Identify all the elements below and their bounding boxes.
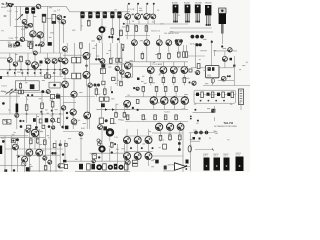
junction bl a: [59, 143, 62, 146]
svg-text:T1: T1: [48, 138, 50, 140]
value label: [212, 93, 214, 96]
wire lead: [116, 144, 118, 164]
wire link: [63, 78, 80, 80]
component bl d: [62, 153, 64, 155]
transistor Q35: [115, 66, 119, 70]
transistor Q63: [161, 97, 168, 104]
wire lead: [41, 114, 43, 125]
wire lead: [101, 43, 103, 59]
diode D3: [7, 72, 9, 74]
capacitor C8: [103, 11, 107, 18]
value label: [215, 132, 218, 135]
wire left bl y149: [5, 148, 63, 150]
capacitor C3 vertical: [42, 14, 46, 22]
wire amp out: [186, 166, 190, 168]
resistor R44: [164, 86, 167, 91]
value label: [155, 53, 157, 56]
diode D9b: [54, 72, 56, 74]
value label: [204, 49, 207, 52]
svg-text:OUT-4: OUT-4: [236, 155, 241, 157]
resistor R38: [115, 112, 118, 118]
component pkg5 end: [221, 45, 223, 47]
wire vbus x81: [80, 18, 82, 31]
wire top rail left: [14, 5, 66, 7]
resistor R45: [175, 86, 178, 91]
wire lead: [73, 97, 75, 109]
relay dot: [53, 84, 56, 87]
resistor R16: [158, 52, 161, 61]
resistor R54: [222, 92, 225, 98]
component box s1: [9, 44, 12, 47]
transistor Q11: [61, 20, 65, 24]
value label: [42, 149, 44, 152]
wire lead: [95, 95, 97, 97]
wire link: [30, 170, 63, 172]
wire link: [125, 66, 152, 68]
diode D7: [34, 72, 36, 74]
transistor Q3: [25, 25, 29, 29]
wire lead: [64, 74, 66, 81]
svg-text:2SB337: 2SB337: [223, 154, 229, 156]
wire lead: [64, 140, 66, 160]
resistor R48: [142, 114, 145, 120]
terminal tip d: [153, 3, 155, 5]
wire vbus x63 left: [62, 24, 64, 43]
wire rail under packages: [170, 27, 212, 29]
value label: [16, 10, 18, 13]
wire link: [46, 18, 53, 20]
terminal tip a: [128, 3, 130, 5]
potentiometer P1: [194, 131, 198, 135]
value label: [178, 14, 180, 17]
junction rail114 1: [26, 113, 28, 115]
value label: [239, 68, 241, 71]
junction rail dot 7: [54, 69, 56, 71]
wire lead: [26, 97, 28, 103]
value label: [46, 156, 48, 159]
transistor Q58: [71, 119, 77, 125]
resistor R62: [92, 154, 96, 159]
wire lead: [32, 14, 34, 31]
value label: [58, 22, 61, 25]
resistor R18: [178, 50, 181, 58]
transistor Q19: [144, 40, 150, 46]
wire left bl y1358: [0, 135, 28, 137]
value label: [81, 25, 83, 28]
wire lead: [86, 119, 88, 129]
transistor Q12: [99, 27, 105, 33]
junction rail968 1: [163, 96, 165, 98]
junction rail968 3: [184, 96, 186, 98]
junction m b: [141, 147, 143, 149]
wire lead: [72, 115, 74, 129]
wire lead: [16, 142, 18, 172]
wire lead: [73, 63, 75, 73]
wire rail left y765: [0, 76, 63, 78]
junction t3: [117, 38, 119, 40]
value label: [168, 163, 171, 166]
resistor R37: [99, 118, 103, 124]
resistor R6: [135, 25, 138, 32]
wire vbus x1124: [111, 18, 113, 43]
capacitor C20: [178, 142, 181, 145]
wire lead: [47, 64, 49, 70]
value label: [54, 10, 56, 13]
value label: [117, 79, 119, 82]
value label: [158, 124, 160, 127]
value label: [57, 92, 59, 95]
capacitor C1: [25, 7, 29, 13]
component n2: [56, 94, 60, 98]
wire lead: [93, 159, 95, 161]
wire lead: [64, 52, 66, 59]
wire link: [218, 80, 234, 82]
component dark left: [2, 102, 5, 105]
value label: [144, 82, 147, 85]
wire lead: [9, 62, 11, 69]
transistor Q70c: [26, 128, 30, 132]
svg-text:2SB337: 2SB337: [213, 154, 219, 156]
transistor Q5: [30, 31, 36, 37]
wire right y855: [203, 85, 250, 87]
value label: [139, 7, 142, 10]
wire lead: [133, 46, 135, 62]
IC module U1: [206, 66, 220, 78]
value label: [49, 6, 52, 9]
value label: [34, 130, 36, 133]
resistor R3a: [88, 20, 91, 27]
value label: [40, 130, 43, 133]
transistor Q55: [71, 91, 77, 97]
wire lead: [22, 70, 24, 77]
relay K2 dark: [211, 109, 215, 113]
value label: [206, 94, 208, 97]
value label: [151, 159, 154, 162]
resistor R12b: [76, 57, 80, 63]
trimmer cap V3: [200, 35, 204, 39]
power supply box: [15, 81, 39, 91]
transistor Q48b: [222, 56, 227, 61]
wire lead: [120, 43, 122, 58]
capacitor C5: [80, 11, 84, 18]
junction t1: [108, 36, 110, 38]
transistor Q13: [97, 36, 101, 40]
wire lead: [66, 43, 68, 53]
inductor coil L1 dark: [16, 104, 19, 113]
resistor R17: [168, 52, 171, 61]
capacitor C15: [45, 118, 48, 122]
value label: [142, 90, 145, 93]
value label: [190, 138, 193, 141]
junction rail114 3: [52, 113, 54, 115]
resistor R34: [105, 97, 110, 101]
resistor Rbm2: [60, 164, 64, 168]
wire lead: [186, 45, 188, 52]
value label: [4, 14, 7, 17]
wire bottom rail y161: [63, 160, 130, 162]
output transistor pack P7: [224, 158, 230, 171]
value label: [182, 108, 185, 111]
wire link: [63, 54, 90, 56]
resistor R21: [150, 75, 153, 86]
crystal X2: [22, 162, 26, 166]
connector pin c: [114, 164, 118, 170]
resistor R49: [154, 114, 157, 120]
component box pair: [11, 139, 15, 143]
antenna arrow 2: [9, 89, 16, 95]
wire lead: [52, 109, 54, 115]
resistor R29: [41, 102, 44, 111]
value label: [115, 103, 118, 106]
wire rail right y115: [193, 111, 212, 113]
transistor Q73: [36, 149, 43, 156]
wire lead: [54, 77, 56, 83]
value label: [55, 120, 57, 123]
value label: [40, 72, 42, 75]
component mark q50a: [189, 82, 191, 84]
wire Q19 up: [146, 24, 148, 40]
resistor R63: [87, 164, 91, 170]
cap blob pair b: [199, 43, 202, 46]
capacitor C23: [193, 137, 196, 140]
wire lead: [153, 96, 155, 98]
capacitor C12: [137, 78, 140, 81]
value label: [49, 36, 52, 39]
wire rail tuner: [125, 23, 188, 25]
value label: [15, 53, 17, 56]
wire lead: [14, 66, 16, 69]
value label: [43, 20, 45, 23]
transistor Q83: [124, 137, 131, 144]
wire lead: [240, 105, 242, 111]
resistor R20: [185, 52, 187, 58]
junction xj: [19, 120, 21, 122]
value label: [96, 55, 99, 58]
resistor Rmm3: [120, 81, 123, 87]
value label: [144, 118, 146, 121]
value label: [121, 119, 124, 122]
junction j1a: [35, 44, 37, 46]
transistor Q79: [99, 146, 105, 152]
svg-text:TV. IF AMP: TV. IF AMP: [152, 63, 163, 66]
value label: [162, 139, 164, 142]
wire lead: [116, 43, 118, 66]
wire lead: [47, 53, 49, 59]
resistor R47: [126, 114, 129, 120]
wire link: [0, 95, 20, 97]
svg-text:S-201: S-201: [164, 111, 170, 113]
wire lead: [116, 71, 118, 86]
diode D11: [23, 120, 25, 122]
value label: [68, 137, 71, 140]
transistor pack T1: [173, 5, 179, 23]
junction j4: [97, 84, 100, 87]
transistor Q47: [125, 63, 132, 70]
logo blob a: [11, 5, 13, 7]
relay box K1: [49, 82, 60, 88]
tick tc: [149, 14, 151, 16]
wire lead: [147, 20, 149, 24]
resistor Rmm2: [112, 77, 115, 80]
wire lead: [26, 114, 28, 123]
resistor R14d: [119, 58, 122, 62]
transistor Q4: [29, 23, 33, 27]
value label: [171, 163, 175, 166]
transistor Q27: [32, 62, 39, 69]
wire bend: [66, 6, 70, 12]
resistor R65: [124, 164, 128, 170]
output transistor pack P6: [214, 158, 221, 171]
wire lead: [101, 152, 103, 161]
trimmer cap V2: [195, 35, 199, 39]
value label: [194, 103, 196, 106]
marker br a: [190, 116, 192, 118]
wire vr2345: [234, 66, 236, 86]
wire link: [63, 102, 76, 104]
value label: [242, 64, 245, 67]
wire Q18 up: [133, 24, 135, 40]
value label: [29, 165, 32, 168]
capacitor C6: [88, 11, 92, 18]
transistor Q68: [167, 123, 174, 130]
value label: [4, 15, 7, 18]
wire lead: [63, 110, 65, 129]
resistor R53: [211, 92, 214, 98]
resistor R51: [175, 114, 178, 120]
value label: [25, 59, 29, 62]
value label: [174, 11, 176, 14]
diode array D14: [196, 93, 199, 96]
wire Q14 up: [127, 5, 129, 14]
wire vbus x102: [101, 18, 103, 43]
wire lead: [121, 74, 123, 80]
wire lead: [80, 18, 82, 31]
wire lead: [34, 55, 36, 62]
component bm0: [114, 143, 116, 145]
resistor Rm1: [44, 75, 47, 78]
svg-text:T-201: T-201: [8, 38, 14, 40]
wire lead: [109, 136, 111, 141]
value label: [42, 79, 45, 82]
wire lead: [104, 95, 106, 97]
value label: [170, 99, 173, 102]
component mark q51a: [227, 75, 229, 77]
junction rail114 4: [59, 113, 61, 115]
bridge rectifier BR1: [30, 84, 35, 89]
terminal block: [186, 160, 189, 164]
junction j5c: [31, 94, 33, 96]
wire lead: [123, 105, 125, 112]
value label: [121, 147, 125, 150]
junction j9: [16, 138, 19, 141]
diode D12: [105, 108, 107, 110]
svg-text:B-101 C2: B-101 C2: [151, 30, 160, 32]
transistor Q30: [83, 53, 90, 60]
wire lead: [224, 61, 226, 67]
wire lead: [40, 70, 42, 77]
transistor Q60: [98, 125, 103, 130]
junction j7: [137, 109, 139, 111]
value label: [18, 59, 22, 62]
transistor Q66: [124, 100, 131, 107]
transistor Q57: [70, 109, 76, 115]
resistor R12a: [72, 57, 76, 63]
resistor R41: [110, 119, 113, 124]
wire lead: [26, 112, 28, 114]
value label: [215, 130, 217, 133]
value label: [92, 47, 95, 50]
capacitor C7: [96, 11, 100, 18]
switch tick: [212, 148, 214, 150]
wire lead: [34, 70, 36, 77]
resistor R60: [44, 164, 47, 171]
wire lead: [14, 53, 16, 62]
resistor R30: [51, 100, 54, 109]
value label: [95, 11, 97, 14]
value label: [157, 9, 159, 12]
resistor R13b: [76, 73, 80, 79]
wire rail antenna2: [25, 96, 63, 98]
transistor pack T3: [195, 5, 201, 23]
resistor R33: [99, 97, 103, 101]
wire rail matrix y136: [125, 135, 153, 137]
diode D13: [112, 108, 114, 110]
wire link: [75, 170, 130, 172]
svg-text:OUT-1: OUT-1: [203, 156, 208, 158]
transistor Q7: [57, 15, 62, 20]
wire lead: [16, 114, 18, 129]
junction t2: [111, 36, 113, 38]
component dark D2: [48, 42, 52, 46]
wire lead: [126, 144, 128, 153]
value label: [239, 101, 241, 104]
value label: [25, 81, 28, 84]
wire lead: [101, 129, 103, 146]
value label: [203, 69, 206, 72]
bottom edge dot: [13, 169, 15, 171]
transistor Q32b: [62, 68, 68, 74]
wire lead: [213, 51, 215, 56]
terminal blob A: [8, 3, 10, 5]
wire link: [0, 136, 45, 138]
value label: [94, 154, 97, 157]
edge connector dark: [0, 146, 2, 155]
transistor Q81: [108, 165, 112, 169]
wire lead: [41, 92, 43, 101]
value label: [47, 134, 50, 137]
terminal blob C: [6, 2, 8, 4]
resistor R57: [37, 137, 40, 144]
edge terminal mid: [0, 76, 2, 79]
wire lead: [53, 24, 55, 54]
transistor Q32a: [62, 58, 68, 64]
wire lead: [34, 137, 36, 149]
value label: [98, 93, 100, 96]
junction mm1: [85, 65, 87, 67]
transistor Q56: [61, 106, 65, 110]
resistor R24: [183, 75, 186, 86]
wire lead: [178, 46, 180, 51]
wire link: [153, 159, 157, 161]
wire lead: [213, 117, 215, 121]
wire vbus x1194: [118, 18, 120, 43]
value label: [91, 153, 94, 156]
value label: [81, 132, 83, 135]
transistor Q46: [181, 67, 188, 74]
transistor pack T4: [205, 5, 211, 26]
value label: [36, 35, 38, 38]
wire lead: [168, 46, 170, 52]
